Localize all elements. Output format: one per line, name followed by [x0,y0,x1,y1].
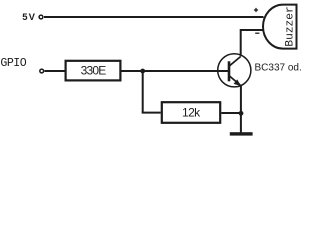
terminal GPIO [40,69,44,73]
junction node emitter [239,111,244,116]
wire emitter to ground [240,86,242,134]
svg-text:5V: 5V [22,12,36,23]
svg-text:GPIO: GPIO [0,57,26,70]
buzzer BZ1 [263,5,297,49]
wire 5V to buzzer + [44,16,264,18]
minus label [255,32,259,34]
terminal 5V [39,15,43,19]
plus label [254,8,258,12]
svg-text:12k: 12k [182,105,201,119]
wire collector to buzzer - [241,30,264,56]
ground [230,132,253,135]
svg-text:Buzzer: Buzzer [284,6,296,46]
resistor R1 330E [66,61,121,81]
svg-text:330E: 330E [81,64,107,78]
resistor R2 12k [162,102,220,123]
wire junction down [142,71,144,113]
svg-text:BC337 od.: BC337 od. [255,62,302,73]
wire to R2 [142,112,161,114]
transistor Q1 BC337 [218,54,251,87]
wire R1 to base [122,70,229,72]
junction node base [140,69,145,74]
wire GPIO to R1 [44,70,64,72]
wire R2 to emitter [221,112,241,114]
